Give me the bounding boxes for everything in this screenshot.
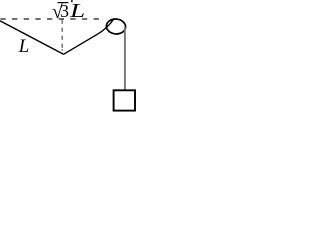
hanging string <box>124 28 126 91</box>
pulley <box>106 18 126 35</box>
wire right string segment to pulley <box>64 19 114 54</box>
label sqrt(3)L : vinculum <box>58 2 69 4</box>
vertical dashed line <box>61 20 63 48</box>
wire left string segment L <box>0 21 64 54</box>
background <box>0 0 142 119</box>
ceiling dashed line <box>0 18 99 20</box>
label sqrt(3)L : tick <box>71 0 73 2</box>
weight box <box>114 90 135 110</box>
svg-text:L: L <box>18 36 29 57</box>
vertical dashed line end dot <box>61 49 63 51</box>
svg-text:3: 3 <box>60 1 69 21</box>
svg-text:L: L <box>69 1 85 22</box>
